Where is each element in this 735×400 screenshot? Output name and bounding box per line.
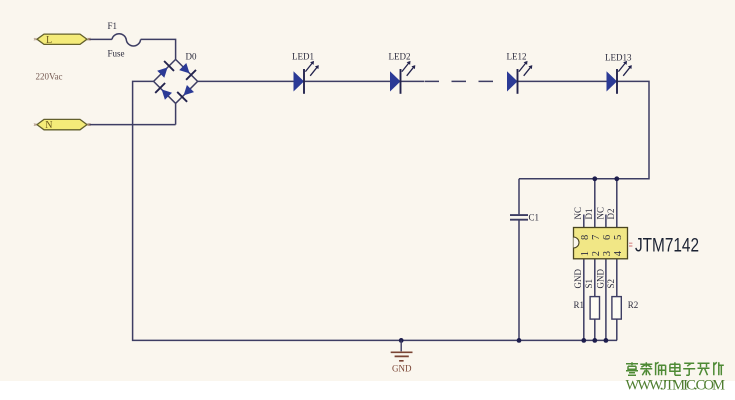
svg-text:LE12: LE12 <box>507 52 527 62</box>
svg-text:NC: NC <box>595 207 605 220</box>
svg-text:LED1: LED1 <box>292 52 314 62</box>
svg-text:JTM7142: JTM7142 <box>635 235 699 256</box>
svg-text:D0: D0 <box>186 51 197 61</box>
svg-text:WWW.JTMIC.COM: WWW.JTMIC.COM <box>626 378 726 394</box>
svg-text:1: 1 <box>580 251 591 256</box>
svg-text:7: 7 <box>591 235 602 240</box>
svg-text:NC: NC <box>573 207 583 220</box>
svg-text:6: 6 <box>602 235 613 240</box>
svg-text:D1: D1 <box>584 209 594 220</box>
svg-text:4: 4 <box>613 250 624 256</box>
svg-text:3: 3 <box>602 251 613 256</box>
svg-text:GND: GND <box>595 269 605 289</box>
svg-text:5: 5 <box>613 235 624 240</box>
svg-text:S2: S2 <box>606 279 616 289</box>
svg-text:8: 8 <box>580 235 591 240</box>
svg-text:LED13: LED13 <box>605 52 632 62</box>
svg-text:F1: F1 <box>108 21 118 31</box>
svg-text:GND: GND <box>392 364 412 374</box>
svg-text:L: L <box>46 35 52 46</box>
svg-text:R1: R1 <box>574 300 585 310</box>
svg-text:LED2: LED2 <box>389 52 411 62</box>
svg-text:S1: S1 <box>584 279 594 289</box>
svg-text:D2: D2 <box>606 209 616 220</box>
svg-text:C1: C1 <box>529 212 540 222</box>
svg-text:220Vac: 220Vac <box>36 72 63 82</box>
svg-text:R2: R2 <box>628 300 639 310</box>
svg-text:GND: GND <box>573 269 583 289</box>
svg-text:N: N <box>45 120 52 131</box>
svg-text:2: 2 <box>591 251 602 256</box>
svg-text:Fuse: Fuse <box>108 48 125 58</box>
